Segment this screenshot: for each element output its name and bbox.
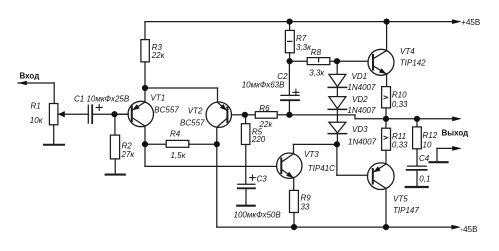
svg-text:VD2: VD2 bbox=[352, 95, 368, 104]
svg-text:1N4007: 1N4007 bbox=[347, 106, 376, 115]
svg-text:VT2: VT2 bbox=[188, 107, 203, 116]
svg-text:R9: R9 bbox=[301, 193, 312, 202]
svg-text:22к: 22к bbox=[151, 51, 166, 60]
svg-text:VD3: VD3 bbox=[352, 125, 368, 134]
svg-text:1N4007: 1N4007 bbox=[347, 83, 376, 92]
svg-text:1N4007: 1N4007 bbox=[348, 137, 377, 146]
svg-text:100мкФх50В: 100мкФх50В bbox=[234, 211, 282, 220]
svg-text:0,33: 0,33 bbox=[392, 100, 408, 109]
svg-text:VT4: VT4 bbox=[400, 47, 415, 56]
svg-text:1,5к: 1,5к bbox=[171, 151, 187, 160]
svg-text:Вход: Вход bbox=[20, 71, 40, 80]
svg-text:27к: 27к bbox=[121, 150, 136, 159]
svg-text:220: 220 bbox=[251, 135, 266, 144]
svg-text:3,3к: 3,3к bbox=[309, 68, 325, 77]
svg-text:VD1: VD1 bbox=[352, 72, 368, 81]
svg-text:BC557: BC557 bbox=[154, 106, 179, 115]
svg-text:R4: R4 bbox=[170, 130, 181, 139]
svg-text:VT5: VT5 bbox=[393, 195, 408, 204]
svg-text:0,33: 0,33 bbox=[392, 141, 408, 150]
svg-text:+45В: +45В bbox=[461, 18, 480, 27]
svg-text:Выход: Выход bbox=[442, 129, 469, 138]
svg-text:С3: С3 bbox=[257, 175, 268, 184]
svg-text:-45В: -45В bbox=[461, 225, 478, 234]
svg-text:С1 10мкФх25В: С1 10мкФх25В bbox=[74, 95, 130, 104]
svg-text:VT1: VT1 bbox=[151, 94, 166, 103]
svg-text:0,1: 0,1 bbox=[419, 174, 430, 183]
svg-text:R1: R1 bbox=[31, 102, 41, 111]
svg-text:10мкФх63В: 10мкФх63В bbox=[242, 80, 285, 89]
svg-text:3,3к: 3,3к bbox=[296, 43, 312, 52]
svg-text:R10: R10 bbox=[392, 91, 407, 100]
svg-text:R8: R8 bbox=[311, 48, 322, 57]
svg-text:R7: R7 bbox=[296, 34, 307, 43]
svg-text:R12: R12 bbox=[423, 131, 438, 140]
svg-text:10к: 10к bbox=[30, 116, 44, 125]
svg-text:VT3: VT3 bbox=[304, 150, 319, 159]
svg-text:R6: R6 bbox=[259, 104, 270, 113]
svg-text:TIP147: TIP147 bbox=[393, 206, 419, 215]
svg-text:10: 10 bbox=[423, 141, 432, 150]
svg-text:C4: C4 bbox=[419, 154, 430, 163]
svg-text:TIP142: TIP142 bbox=[400, 59, 426, 68]
svg-text:TIP41C: TIP41C bbox=[308, 164, 335, 173]
svg-text:33: 33 bbox=[301, 203, 310, 212]
svg-text:BC557: BC557 bbox=[180, 118, 205, 127]
